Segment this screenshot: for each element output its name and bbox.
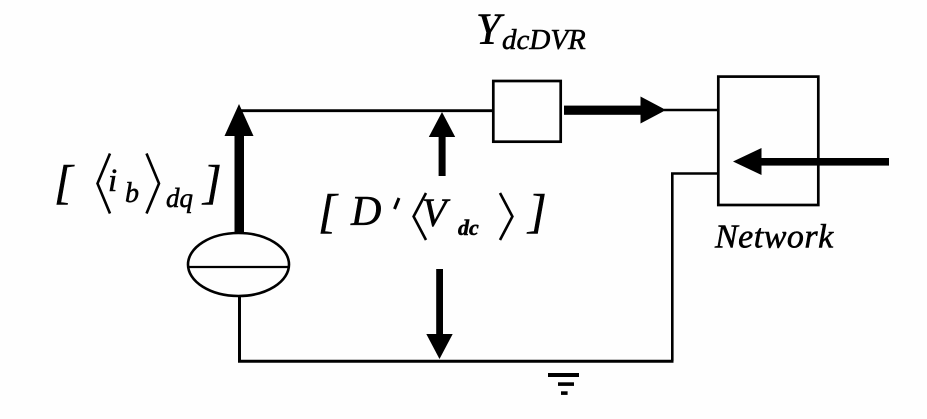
svg-text:i: i (108, 163, 117, 199)
svg-text:Network: Network (714, 219, 834, 256)
thick arrow: Ydc box to network (564, 97, 666, 124)
wire: top horizontal from source arrow to Ydc box (238, 109, 493, 112)
svg-text:]: ] (201, 156, 222, 209)
current source (ellipse) (188, 233, 289, 296)
ground rail wire (bottom horizontal) (238, 360, 674, 363)
wire: source bottom to ground rail (238, 295, 241, 361)
ground symbol (548, 373, 579, 395)
svg-text:Y: Y (476, 5, 505, 54)
network box (718, 77, 818, 205)
current source output arrow (thick up arrow) (225, 104, 254, 234)
voltage arrow up (top half of middle double arrow) (429, 112, 455, 176)
voltage arrow down (bottom half of middle double arrow) (426, 269, 452, 359)
svg-text:[: [ (318, 185, 339, 238)
wire: arrow tip to network box (664, 109, 718, 111)
thick arrow: from right edge into network (733, 148, 889, 175)
label [ <ib>dq ] (54, 154, 222, 214)
Ydc box (493, 81, 560, 142)
svg-text:V: V (422, 190, 451, 235)
svg-text:[: [ (54, 156, 75, 209)
svg-text:dq: dq (166, 183, 193, 213)
svg-text:D: D (350, 189, 381, 235)
label [ D ' <Vdc> ] (318, 185, 547, 240)
svg-text:dcDVR: dcDVR (502, 24, 586, 56)
svg-text:dc: dc (458, 215, 479, 240)
svg-text:]: ] (526, 185, 547, 238)
svg-text:b: b (125, 178, 139, 209)
wire: network box left to ground rail (corner) (672, 174, 717, 362)
